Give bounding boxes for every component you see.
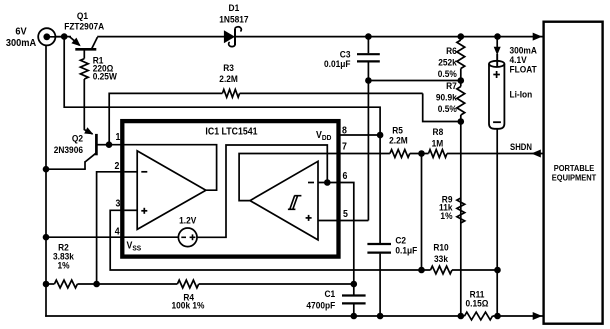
svg-text:0.15Ω: 0.15Ω <box>466 298 489 309</box>
svg-text:Q2: Q2 <box>72 133 83 144</box>
svg-text:1N5817: 1N5817 <box>219 14 248 25</box>
svg-text:R6: R6 <box>446 46 457 57</box>
svg-text:2: 2 <box>115 159 120 171</box>
svg-text:0.5%: 0.5% <box>438 69 457 80</box>
svg-text:2.2M: 2.2M <box>389 135 408 146</box>
svg-text:FZT2907A: FZT2907A <box>64 21 104 32</box>
svg-text:7: 7 <box>342 140 347 152</box>
svg-text:1M: 1M <box>432 138 444 149</box>
svg-text:R10: R10 <box>433 242 448 253</box>
svg-text:8: 8 <box>342 124 347 136</box>
svg-text:3: 3 <box>116 197 121 209</box>
svg-text:4700pF: 4700pF <box>306 300 335 311</box>
svg-text:0.1μF: 0.1μF <box>395 245 417 256</box>
svg-text:6V: 6V <box>15 26 27 38</box>
svg-text:SHDN: SHDN <box>510 142 532 152</box>
svg-text:R7: R7 <box>446 81 457 92</box>
svg-text:0.25W: 0.25W <box>93 71 118 82</box>
svg-text:300mA: 300mA <box>6 37 36 49</box>
svg-text:0.5%: 0.5% <box>438 104 457 115</box>
svg-text:6: 6 <box>343 169 348 181</box>
svg-text:2.2M: 2.2M <box>219 74 238 85</box>
svg-text:1.2V: 1.2V <box>179 215 196 226</box>
svg-text:1%: 1% <box>440 210 452 221</box>
svg-text:90.9k: 90.9k <box>436 92 457 103</box>
svg-text:33k: 33k <box>434 253 448 264</box>
svg-text:EQUIPMENT: EQUIPMENT <box>552 173 597 183</box>
svg-text:D1: D1 <box>229 3 240 14</box>
svg-text:Q1: Q1 <box>77 11 88 22</box>
svg-text:PORTABLE: PORTABLE <box>554 163 595 173</box>
svg-text:100k 1%: 100k 1% <box>172 300 205 311</box>
svg-text:Li-Ion: Li-Ion <box>510 89 533 100</box>
svg-text:R3: R3 <box>223 62 234 73</box>
svg-text:1: 1 <box>116 131 121 143</box>
svg-text:5: 5 <box>343 207 348 219</box>
svg-text:252k: 252k <box>438 57 457 68</box>
svg-text:0.01μF: 0.01μF <box>324 58 351 69</box>
svg-text:FLOAT: FLOAT <box>510 64 538 75</box>
svg-text:4: 4 <box>115 225 121 237</box>
svg-text:1%: 1% <box>57 260 69 271</box>
svg-text:R8: R8 <box>433 127 444 138</box>
svg-text:C1: C1 <box>325 288 336 299</box>
svg-text:IC1 LTC1541: IC1 LTC1541 <box>205 125 257 137</box>
svg-text:2N3906: 2N3906 <box>54 144 83 155</box>
